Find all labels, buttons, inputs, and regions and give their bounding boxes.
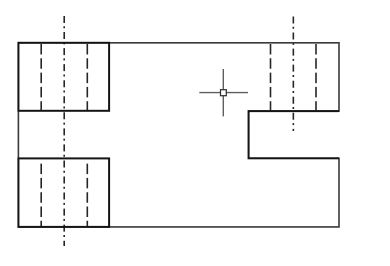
pocket rectangle bottom-left	[18, 158, 109, 227]
pocket rectangle top-left	[18, 43, 109, 111]
crosshair cursor vertical line	[222, 69, 224, 116]
hidden line left pocket dashed 1 upper	[40, 44, 42, 111]
centerline left vertical (dash-dot)	[63, 16, 65, 246]
hidden line left pocket dashed 1 lower	[40, 164, 42, 227]
hidden line right notch dashed 2	[315, 44, 317, 111]
part outline polygon	[18, 43, 339, 227]
crosshair cursor pickbox	[221, 90, 227, 96]
hidden line right notch dashed 1	[270, 44, 272, 111]
crosshair cursor horizontal line	[199, 92, 248, 94]
hidden line left pocket dashed 2 upper	[86, 44, 88, 111]
notch step edges (top, left, bottom of right-side notch)	[249, 111, 339, 158]
centerline right vertical (dash-dot)	[292, 17, 294, 132]
hidden line left pocket dashed 2 lower	[86, 164, 88, 227]
